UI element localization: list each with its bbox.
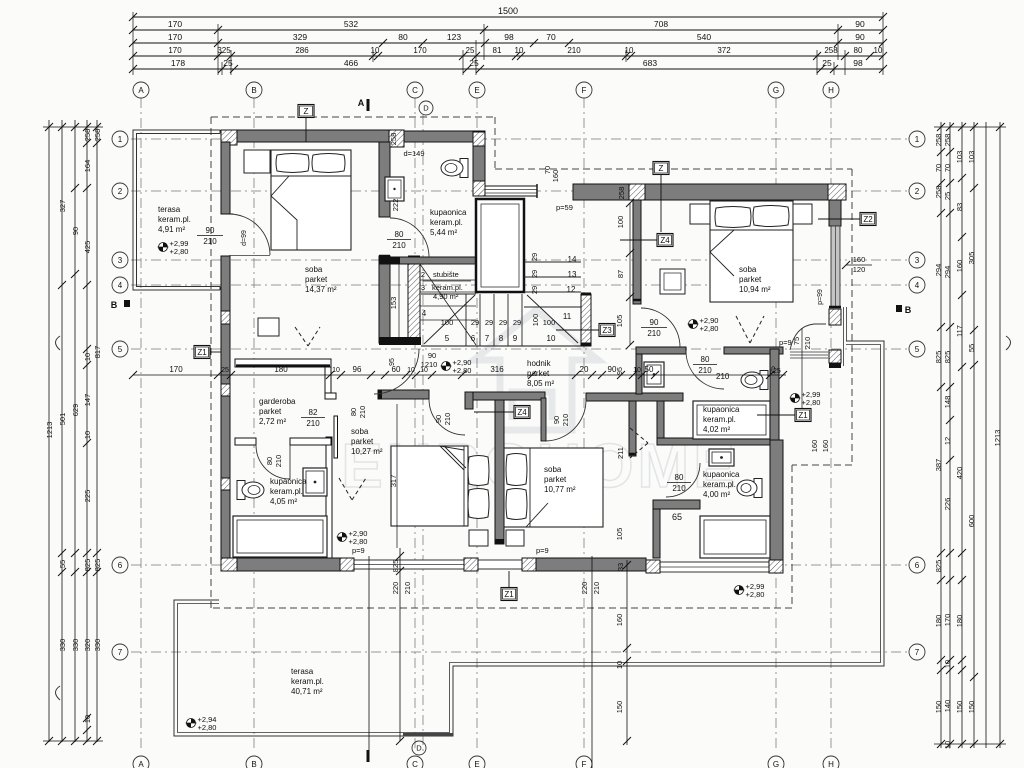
svg-text:kupaonica: kupaonica xyxy=(703,405,740,414)
svg-text:170: 170 xyxy=(168,19,182,29)
svg-text:A: A xyxy=(358,98,365,108)
svg-text:keram.pl.: keram.pl. xyxy=(703,415,736,424)
svg-text:G: G xyxy=(773,760,779,768)
garderoba north wall xyxy=(235,359,331,367)
svg-text:316: 316 xyxy=(490,365,504,374)
svg-text:87: 87 xyxy=(616,270,625,278)
stair lower flight treads xyxy=(421,345,581,347)
soba1077 bed xyxy=(504,448,603,527)
toilet kup544 xyxy=(460,159,468,178)
svg-text:B: B xyxy=(251,760,256,768)
svg-text:D: D xyxy=(416,744,422,753)
svg-text:170: 170 xyxy=(169,365,183,374)
kup400 west wall xyxy=(629,401,636,456)
svg-text:+2,80: +2,80 xyxy=(746,590,765,599)
svg-text:1: 1 xyxy=(915,135,920,144)
soba1027 dim line 317 xyxy=(396,404,398,548)
svg-text:1210: 1210 xyxy=(421,360,438,369)
svg-text:153: 153 xyxy=(389,297,398,310)
stairwell void frame xyxy=(476,199,524,292)
svg-text:170: 170 xyxy=(168,46,182,55)
svg-text:10: 10 xyxy=(83,353,92,361)
svg-text:2: 2 xyxy=(421,270,425,279)
svg-text:80: 80 xyxy=(265,457,274,465)
stair west wall lower xyxy=(379,256,390,343)
svg-text:210: 210 xyxy=(592,582,601,595)
svg-text:180: 180 xyxy=(934,615,943,628)
svg-text:100: 100 xyxy=(616,216,625,229)
svg-text:A: A xyxy=(138,760,144,768)
kup400 east wall xyxy=(770,349,779,440)
svg-text:210: 210 xyxy=(392,241,406,250)
svg-text:100: 100 xyxy=(543,318,556,327)
soba2 dashed projection xyxy=(736,316,750,343)
svg-text:387: 387 xyxy=(934,459,943,472)
svg-text:180: 180 xyxy=(274,365,288,374)
svg-text:80: 80 xyxy=(854,46,863,55)
svg-text:p=59: p=59 xyxy=(556,203,573,212)
svg-text:825: 825 xyxy=(391,560,400,573)
svg-text:210: 210 xyxy=(672,484,686,493)
svg-text:210: 210 xyxy=(698,366,712,375)
pier right wall middle xyxy=(829,306,841,309)
soba2 west wall xyxy=(633,200,641,304)
svg-text:8,05 m²: 8,05 m² xyxy=(527,379,554,388)
svg-text:425: 425 xyxy=(83,241,92,254)
soba2 nightstand right xyxy=(793,204,812,224)
svg-text:Z3: Z3 xyxy=(602,326,612,335)
piers on bottom wall xyxy=(221,558,237,571)
svg-text:terasa: terasa xyxy=(158,205,181,214)
svg-text:90: 90 xyxy=(855,19,865,29)
svg-text:13: 13 xyxy=(568,270,577,279)
soba2 interior dim line xyxy=(629,203,631,345)
svg-text:10: 10 xyxy=(371,46,380,55)
door soba1027 90/210 xyxy=(429,399,465,435)
svg-text:5: 5 xyxy=(915,345,920,354)
svg-text:10,77 m²: 10,77 m² xyxy=(544,485,576,494)
marker Z1 bottom wall xyxy=(501,588,517,601)
svg-text:10: 10 xyxy=(943,741,952,749)
svg-text:210: 210 xyxy=(203,237,217,246)
soba2 nightstand left xyxy=(690,204,710,224)
svg-text:150: 150 xyxy=(967,701,976,714)
svg-text:466: 466 xyxy=(344,58,358,68)
svg-text:50: 50 xyxy=(645,365,654,374)
svg-text:hodnik: hodnik xyxy=(527,359,552,368)
stair direction diagonals xyxy=(424,295,475,344)
toilet kup405 xyxy=(237,481,245,500)
svg-text:7: 7 xyxy=(118,648,123,657)
svg-text:parket: parket xyxy=(544,475,567,484)
svg-text:80: 80 xyxy=(395,230,404,239)
svg-text:105: 105 xyxy=(615,528,624,541)
svg-text:147: 147 xyxy=(83,394,92,407)
svg-text:p=9: p=9 xyxy=(779,338,792,347)
svg-text:825: 825 xyxy=(943,351,952,364)
svg-text:keram.pl.: keram.pl. xyxy=(703,480,736,489)
svg-text:Z1: Z1 xyxy=(197,348,207,357)
svg-text:10: 10 xyxy=(83,431,92,439)
bedroom divider wall (10,27/10,77) xyxy=(495,400,504,544)
svg-text:d=99: d=99 xyxy=(241,230,248,246)
svg-text:E: E xyxy=(474,86,479,95)
svg-text:170: 170 xyxy=(943,614,952,627)
svg-text:10: 10 xyxy=(615,661,624,669)
svg-text:1500: 1500 xyxy=(498,6,518,16)
left dimension chain xyxy=(48,120,50,742)
svg-text:90: 90 xyxy=(855,32,865,42)
svg-text:Z4: Z4 xyxy=(660,236,670,245)
soba1 wardrobe xyxy=(244,150,270,173)
svg-text:82: 82 xyxy=(309,408,318,417)
svg-text:98: 98 xyxy=(504,32,514,42)
washbasin kup405 xyxy=(303,468,327,496)
svg-text:Z4: Z4 xyxy=(517,408,527,417)
soba1 desk xyxy=(258,318,279,336)
bottom dim line 150 xyxy=(626,560,628,745)
bottom inner dimension lines xyxy=(368,556,370,758)
pier top-left corner xyxy=(221,130,237,145)
right dimension ticks xyxy=(937,123,945,131)
dashed plan boundary xyxy=(211,116,495,118)
left edge break marks xyxy=(56,336,61,350)
svg-text:210: 210 xyxy=(274,455,283,468)
svg-text:Z: Z xyxy=(304,107,309,116)
terrace bottom threshold segment xyxy=(403,733,453,736)
svg-text:garderoba: garderoba xyxy=(259,397,296,406)
section mark A bottom xyxy=(367,750,370,762)
section mark A top xyxy=(367,99,370,111)
svg-text:3: 3 xyxy=(118,256,123,265)
svg-text:29: 29 xyxy=(530,286,539,294)
svg-text:222: 222 xyxy=(391,199,400,212)
svg-text:H: H xyxy=(828,760,834,768)
garderoba door leaf 82 xyxy=(334,416,338,458)
pier soba2 top-left xyxy=(629,184,645,200)
svg-text:90: 90 xyxy=(434,415,443,423)
svg-text:6: 6 xyxy=(915,561,920,570)
svg-text:10,27 m²: 10,27 m² xyxy=(351,447,383,456)
svg-text:25: 25 xyxy=(943,192,952,200)
svg-text:210: 210 xyxy=(716,372,730,381)
hodnik south wall mid segment xyxy=(465,392,545,400)
door kup400 80/210 xyxy=(666,463,700,497)
svg-text:4: 4 xyxy=(422,309,427,318)
kup405 dashed projection xyxy=(339,478,352,500)
exterior wall left xyxy=(221,142,230,214)
svg-text:7: 7 xyxy=(485,334,490,343)
left dimension ticks xyxy=(45,123,53,131)
svg-text:95: 95 xyxy=(617,367,624,375)
svg-text:164: 164 xyxy=(83,160,92,173)
door kup544 80/210 xyxy=(390,218,429,257)
svg-text:Z1: Z1 xyxy=(504,590,514,599)
stairs bottom wall cap xyxy=(379,337,421,345)
svg-text:10: 10 xyxy=(515,46,524,55)
stair east hatched pier xyxy=(581,294,591,346)
kup400 level marker xyxy=(735,586,744,595)
svg-text:294: 294 xyxy=(934,264,943,277)
svg-text:10: 10 xyxy=(407,367,415,374)
svg-text:708: 708 xyxy=(654,19,668,29)
garderoba east wall xyxy=(325,367,331,393)
svg-text:+2,80: +2,80 xyxy=(453,366,472,375)
exterior wall top (soba1) xyxy=(221,130,389,142)
section mark B left xyxy=(124,300,130,307)
svg-text:kupaonica: kupaonica xyxy=(430,208,467,217)
svg-text:25: 25 xyxy=(223,58,233,68)
bottom inner dim line 2 xyxy=(591,556,593,768)
svg-text:4,05 m²: 4,05 m² xyxy=(270,497,297,506)
stair west wall upper xyxy=(379,142,390,217)
svg-text:210: 210 xyxy=(567,46,581,55)
soba2 bed xyxy=(710,201,793,302)
svg-text:Z1: Z1 xyxy=(798,411,808,420)
kup402 dashed projection xyxy=(630,428,648,443)
svg-text:6: 6 xyxy=(471,334,476,343)
svg-text:90: 90 xyxy=(552,416,561,424)
svg-text:160: 160 xyxy=(955,260,964,273)
svg-text:100: 100 xyxy=(531,314,540,327)
svg-text:150: 150 xyxy=(934,701,943,714)
svg-text:10: 10 xyxy=(633,367,641,374)
svg-text:90: 90 xyxy=(428,351,436,360)
door wc 80/210 xyxy=(686,351,724,389)
svg-text:29: 29 xyxy=(513,318,521,327)
svg-text:258: 258 xyxy=(934,134,943,147)
svg-text:parket: parket xyxy=(351,437,374,446)
stair dim line 153 xyxy=(398,259,400,341)
svg-text:317: 317 xyxy=(389,475,398,488)
svg-text:178: 178 xyxy=(171,58,185,68)
svg-text:55: 55 xyxy=(967,344,976,352)
grid axis letter circles bottom xyxy=(133,756,149,768)
svg-text:170: 170 xyxy=(168,32,182,42)
window right wall xyxy=(831,226,840,307)
svg-text:33: 33 xyxy=(616,563,625,571)
svg-text:103: 103 xyxy=(955,151,964,164)
exterior wall right upper xyxy=(829,200,841,226)
svg-text:kupaonica: kupaonica xyxy=(703,470,740,479)
svg-text:90: 90 xyxy=(608,365,617,374)
svg-text:29: 29 xyxy=(530,253,539,261)
svg-text:3: 3 xyxy=(915,256,920,265)
svg-text:+2,80: +2,80 xyxy=(349,537,368,546)
svg-text:117: 117 xyxy=(955,325,964,337)
svg-text:stubište: stubište xyxy=(433,270,459,279)
svg-text:A: A xyxy=(138,86,144,95)
door soba1 to terrace 90/210 xyxy=(229,214,270,255)
svg-text:p=9: p=9 xyxy=(536,546,549,555)
svg-text:120: 120 xyxy=(853,265,866,274)
svg-text:soba: soba xyxy=(351,427,369,436)
washbasin wc xyxy=(644,362,664,387)
terrace top-left outline xyxy=(133,130,220,290)
marker Z soba2 top xyxy=(653,162,669,175)
svg-text:parket: parket xyxy=(739,275,762,284)
stair upper flight treads xyxy=(524,261,581,263)
svg-text:p=9: p=9 xyxy=(352,546,365,555)
svg-text:+2,80: +2,80 xyxy=(700,324,719,333)
closet65 walls xyxy=(653,500,700,509)
svg-text:210: 210 xyxy=(358,406,367,419)
grid axis dashed vertical lines xyxy=(140,98,142,752)
svg-text:90: 90 xyxy=(206,226,215,235)
svg-text:2,72 m²: 2,72 m² xyxy=(259,417,286,426)
svg-text:80: 80 xyxy=(349,408,358,416)
svg-text:90: 90 xyxy=(71,227,80,235)
kup402 level marker xyxy=(791,394,800,403)
dim 160/120 right room xyxy=(846,264,872,266)
shower closet65 xyxy=(700,516,770,558)
svg-text:4,02 m²: 4,02 m² xyxy=(703,425,730,434)
svg-text:3: 3 xyxy=(421,283,425,292)
door kup405 80/210 xyxy=(256,445,290,479)
svg-text:25: 25 xyxy=(770,366,777,374)
svg-text:372: 372 xyxy=(717,46,731,55)
svg-text:Z: Z xyxy=(659,164,664,173)
svg-text:330: 330 xyxy=(58,639,67,652)
svg-text:286: 286 xyxy=(295,46,309,55)
svg-text:60: 60 xyxy=(392,365,401,374)
svg-text:80: 80 xyxy=(701,355,710,364)
svg-text:kupaonica: kupaonica xyxy=(270,477,307,486)
svg-text:325: 325 xyxy=(217,46,231,55)
bathtub kup405 xyxy=(233,516,327,557)
svg-text:4,00 m²: 4,00 m² xyxy=(703,490,730,499)
svg-text:90: 90 xyxy=(650,318,659,327)
svg-text:4: 4 xyxy=(915,281,920,290)
svg-text:420: 420 xyxy=(955,467,964,480)
svg-text:C: C xyxy=(412,86,418,95)
svg-text:2: 2 xyxy=(118,187,123,196)
right facade lines xyxy=(843,307,845,366)
terrace bottom outline xyxy=(174,341,884,736)
svg-text:105: 105 xyxy=(615,315,624,328)
marker Z3 stairs xyxy=(599,324,615,337)
svg-text:p=99: p=99 xyxy=(817,289,824,305)
svg-text:Z2: Z2 xyxy=(863,215,873,224)
svg-text:10: 10 xyxy=(874,46,883,55)
svg-text:keram.pl.: keram.pl. xyxy=(291,677,324,686)
svg-text:226: 226 xyxy=(943,498,952,511)
svg-text:80: 80 xyxy=(398,32,408,42)
svg-text:160: 160 xyxy=(853,255,866,264)
svg-text:1: 1 xyxy=(118,135,123,144)
svg-text:170: 170 xyxy=(413,46,427,55)
watermark EUROHOME logo xyxy=(474,310,598,430)
svg-text:501: 501 xyxy=(58,413,67,426)
svg-text:F: F xyxy=(582,760,587,768)
stair mid treads (stubiste) xyxy=(420,279,476,281)
bathtub kup402 xyxy=(693,401,770,439)
soba1 bed xyxy=(271,150,351,250)
svg-text:75: 75 xyxy=(792,337,801,345)
soba1077 nightstand xyxy=(506,530,524,546)
pier soba2 top-right xyxy=(828,184,846,200)
svg-text:14,37 m²: 14,37 m² xyxy=(305,285,337,294)
row axis dash-dot lines xyxy=(131,138,908,140)
kup405 north wall xyxy=(235,438,256,445)
soba1027 nightstand xyxy=(469,530,488,546)
svg-text:d=149: d=149 xyxy=(403,149,424,158)
svg-text:160: 160 xyxy=(551,170,560,183)
svg-text:83: 83 xyxy=(955,203,964,211)
marker Z2 right wall xyxy=(860,213,876,226)
svg-text:6: 6 xyxy=(118,561,123,570)
svg-text:soba: soba xyxy=(305,265,323,274)
midline dimension chain y375 xyxy=(133,374,786,376)
svg-text:2: 2 xyxy=(915,187,920,196)
marker Z1 kup402 xyxy=(795,409,811,422)
svg-text:keram.pl.: keram.pl. xyxy=(270,487,303,496)
wc north wall (soba2 south) xyxy=(636,347,686,354)
pier at wall jog xyxy=(389,130,404,147)
svg-text:B: B xyxy=(251,86,256,95)
svg-text:258: 258 xyxy=(389,133,398,146)
svg-text:1213: 1213 xyxy=(45,422,54,439)
hodnik south wall west segment xyxy=(378,390,429,399)
svg-text:25: 25 xyxy=(469,58,479,68)
exterior bottom wall xyxy=(237,558,340,571)
hodnik south wall east segment + kup402 north xyxy=(586,393,683,401)
svg-text:160: 160 xyxy=(615,614,624,627)
svg-text:825: 825 xyxy=(93,559,102,572)
svg-text:683: 683 xyxy=(643,58,657,68)
svg-text:540: 540 xyxy=(697,32,711,42)
svg-text:11: 11 xyxy=(563,312,572,321)
svg-text:29: 29 xyxy=(530,270,539,278)
door soba2 90/210 xyxy=(641,308,680,347)
svg-text:5: 5 xyxy=(445,334,450,343)
svg-text:305: 305 xyxy=(967,252,976,265)
svg-text:100: 100 xyxy=(441,318,454,327)
svg-text:210: 210 xyxy=(403,582,412,595)
top dimension chain xyxy=(133,16,883,18)
svg-text:103: 103 xyxy=(967,151,976,164)
soba2 level marker xyxy=(689,320,698,329)
soba1027 level marker xyxy=(338,533,347,542)
svg-text:225: 225 xyxy=(83,490,92,503)
row number circles right xyxy=(909,131,925,147)
svg-text:258: 258 xyxy=(617,187,626,200)
marker Z4 hodnik wall xyxy=(514,406,530,419)
door stairs/hodnik xyxy=(374,349,419,394)
row number circles left xyxy=(112,131,128,147)
svg-text:258: 258 xyxy=(824,46,838,55)
hodnik level marker xyxy=(442,362,451,371)
svg-text:70: 70 xyxy=(546,32,556,42)
svg-text:H: H xyxy=(828,86,834,95)
svg-text:330: 330 xyxy=(93,639,102,652)
svg-text:parket: parket xyxy=(259,407,282,416)
svg-text:210: 210 xyxy=(561,414,570,427)
svg-text:14: 14 xyxy=(568,255,577,264)
svg-text:29: 29 xyxy=(471,318,479,327)
right edge break marks xyxy=(1006,336,1011,350)
pier right wall lower xyxy=(829,350,841,363)
svg-text:keram.pl.: keram.pl. xyxy=(430,218,463,227)
svg-text:220: 220 xyxy=(580,582,589,595)
svg-text:320: 320 xyxy=(83,639,92,652)
soba1027 bed xyxy=(391,446,468,526)
svg-text:+2,80: +2,80 xyxy=(802,398,821,407)
marker Z top wall xyxy=(298,105,314,118)
svg-text:210: 210 xyxy=(803,337,812,350)
svg-text:G: G xyxy=(773,86,779,95)
svg-text:B: B xyxy=(905,305,912,315)
